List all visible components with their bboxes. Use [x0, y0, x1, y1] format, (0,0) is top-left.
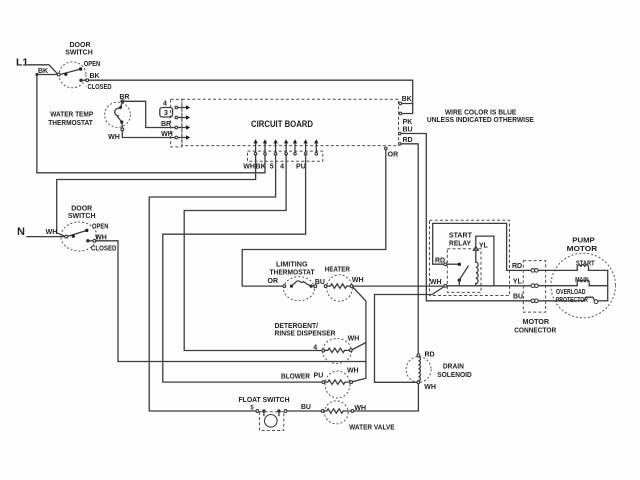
- door switch S2 contact OPEN: [85, 229, 88, 232]
- wire float switch to water valve: [287, 410, 321, 412]
- water temp thermostat terminal bottom: [121, 123, 123, 128]
- door switch S2 contact CLOSED: [86, 239, 89, 242]
- svg-text:FLOAT SWITCH: FLOAT SWITCH: [239, 395, 290, 404]
- overload protector element: [584, 297, 595, 301]
- node L1 junction: [35, 73, 38, 76]
- dispenser enclosure: [323, 339, 352, 364]
- start relay coil: [475, 250, 477, 262]
- svg-text:THERMOSTAT: THERMOSTAT: [270, 268, 315, 277]
- svg-text:4: 4: [163, 100, 167, 107]
- wire board pin PU to blower: [163, 155, 322, 382]
- wire connector YL to main winding: [538, 285, 577, 287]
- node S2 blade: [72, 235, 75, 238]
- wire thermostat WH to board pin WH row: [122, 131, 175, 138]
- door switch S1 enclosure: [59, 62, 86, 88]
- circuit board pin BU right side: [399, 132, 402, 135]
- wire BK drop from L1 to BK bus: [36, 75, 38, 173]
- dispenser element: [325, 348, 350, 352]
- svg-text:OVERLOAD: OVERLOAD: [556, 289, 586, 296]
- svg-text:WH: WH: [46, 229, 58, 236]
- svg-text:OR: OR: [388, 152, 399, 159]
- door switch S2 pivot: [65, 235, 68, 238]
- pump motor internal bus: [607, 270, 609, 300]
- svg-text:WH: WH: [430, 279, 442, 286]
- circuit board enclosure: [182, 99, 399, 145]
- svg-text:BLOWER: BLOWER: [281, 371, 310, 380]
- wire drain solenoid to water valve: [354, 384, 419, 411]
- svg-text:CLOSED: CLOSED: [91, 245, 117, 252]
- svg-text:WH: WH: [352, 277, 364, 284]
- svg-text:WH: WH: [347, 367, 359, 374]
- start relay switch blade: [460, 266, 468, 279]
- start relay enclosure: [430, 220, 510, 295]
- bottom connector enclosure: [248, 151, 323, 161]
- svg-text:MOTOR: MOTOR: [567, 244, 598, 253]
- bottom connector pins with arrows: [255, 144, 257, 153]
- water temp thermostat bimetal element: [121, 103, 122, 107]
- svg-text:YL: YL: [479, 243, 489, 250]
- node S1 blade: [64, 73, 67, 76]
- svg-text:4: 4: [280, 164, 284, 171]
- water temp thermostat enclosure: [105, 102, 131, 127]
- wire connector RD to start winding: [538, 269, 577, 271]
- svg-text:RD: RD: [512, 263, 522, 270]
- start relay switch enclosure: [447, 249, 481, 293]
- svg-text:WH: WH: [243, 164, 255, 171]
- dispenser terminal left: [322, 349, 325, 352]
- wire board pin 5 to float switch: [149, 155, 275, 411]
- pump motor start winding: [577, 265, 588, 271]
- svg-text:3: 3: [164, 110, 168, 117]
- svg-text:CIRCUIT BOARD: CIRCUIT BOARD: [251, 119, 313, 129]
- svg-text:5: 5: [270, 164, 274, 171]
- door switch S1 contact OPEN: [79, 67, 82, 70]
- svg-text:OPEN: OPEN: [92, 224, 109, 231]
- pump motor main winding: [577, 280, 589, 286]
- svg-text:BU: BU: [402, 127, 412, 134]
- wire jumper BK pin to PK pin: [402, 104, 413, 114]
- wire relay WH row to motor connector YL: [447, 285, 532, 287]
- water valve terminal right: [351, 410, 354, 413]
- svg-text:4: 4: [313, 344, 317, 351]
- wire S2 closed to WH bus: [96, 241, 366, 362]
- wire L1 feed: [28, 65, 58, 75]
- water valve terminal left: [321, 410, 324, 413]
- wire thermostat BR to board pin 3 row: [122, 101, 175, 127]
- circuit board pin BK right side: [399, 102, 402, 105]
- svg-text:UNLESS INDICATED OTHERWISE: UNLESS INDICATED OTHERWISE: [427, 115, 534, 124]
- door switch S2 blade: [68, 230, 87, 236]
- wire YL up and over to motor connector YL: [476, 236, 494, 286]
- circuit board pin RD right side: [399, 143, 402, 146]
- svg-text:WH: WH: [348, 335, 360, 342]
- circuit board pin PK right side: [399, 112, 402, 115]
- wire relay RD to switch contact: [447, 263, 460, 265]
- blower element: [325, 380, 350, 384]
- wire board pin BK to L1 bus: [37, 155, 265, 173]
- wire relay RD loop to motor connector RD: [433, 223, 532, 270]
- wire board pin WH to door switch S2: [57, 155, 256, 237]
- svg-text:THERMOSTAT: THERMOSTAT: [48, 118, 93, 127]
- left connector pins with arrows: [175, 106, 178, 109]
- wire heater WH to dispenser-blower column: [352, 287, 366, 382]
- svg-text:RD: RD: [402, 137, 412, 144]
- limiting thermostat enclosure: [284, 277, 315, 301]
- water valve element: [324, 409, 351, 413]
- blower terminal right: [350, 381, 353, 384]
- svg-text:BU: BU: [513, 293, 523, 300]
- float switch contacts: [262, 409, 265, 412]
- svg-text:DOOR: DOOR: [71, 206, 92, 213]
- wire relay switch to WH row: [458, 280, 460, 286]
- svg-text:BK: BK: [38, 68, 48, 75]
- svg-text:SWITCH: SWITCH: [65, 50, 93, 57]
- pump motor enclosure: [551, 253, 616, 318]
- blower enclosure: [325, 371, 350, 398]
- float switch float: [265, 415, 278, 428]
- svg-text:OR: OR: [268, 278, 279, 285]
- svg-text:RELAY: RELAY: [449, 238, 471, 247]
- svg-text:PU: PU: [296, 164, 306, 171]
- start relay switch contact upper: [458, 263, 461, 266]
- left connector enclosure: [171, 99, 182, 146]
- svg-text:WH: WH: [424, 384, 436, 391]
- water temp thermostat terminal top: [121, 100, 124, 103]
- svg-text:YL: YL: [513, 279, 523, 286]
- wire thermostat to heater: [311, 285, 314, 287]
- door switch S2 enclosure: [61, 222, 97, 251]
- wire heater to start relay WH: [353, 285, 443, 287]
- wire board pin BU to motor connector BU: [401, 134, 531, 301]
- wire connector BU to overload protector: [538, 300, 584, 302]
- limiting thermostat terminal right: [314, 285, 317, 288]
- wire board pin OR to limiting thermostat: [242, 150, 386, 286]
- svg-text:PK: PK: [403, 119, 413, 126]
- wire WH bus from relay to drain solenoid: [375, 287, 444, 382]
- svg-text:DOOR: DOOR: [70, 42, 91, 49]
- svg-text:SWITCH: SWITCH: [68, 213, 96, 220]
- drain solenoid terminal top: [417, 354, 420, 357]
- svg-text:WH: WH: [161, 131, 173, 138]
- door switch S1 contact CLOSED: [79, 79, 82, 82]
- door switch S1 blade: [60, 69, 80, 75]
- svg-text:BK: BK: [256, 164, 266, 171]
- blower terminal left: [322, 381, 325, 384]
- wire board pin 4 to dispenser: [184, 155, 322, 351]
- svg-text:BK: BK: [402, 96, 412, 103]
- drain solenoid coil: [418, 357, 420, 381]
- svg-text:CONNECTOR: CONNECTOR: [514, 325, 557, 334]
- svg-text:HEATER: HEATER: [325, 265, 350, 274]
- svg-text:WH: WH: [108, 134, 120, 141]
- svg-text:RINSE DISPENSER: RINSE DISPENSER: [275, 329, 337, 338]
- float switch terminal right: [284, 410, 287, 413]
- dispenser terminal right: [349, 349, 352, 352]
- wire N feed: [27, 236, 65, 238]
- svg-text:BK: BK: [89, 73, 99, 80]
- start relay coil terminal YL: [474, 246, 479, 250]
- drain solenoid terminal bottom: [417, 381, 420, 384]
- svg-text:N: N: [17, 226, 25, 238]
- svg-text:SOLENOID: SOLENOID: [437, 370, 472, 379]
- wire start winding to motor bus: [589, 269, 608, 271]
- start relay switch contact lower: [458, 279, 461, 282]
- motor connector contacts RD YL BU: [531, 269, 535, 273]
- circuit board pin OR bottom: [385, 147, 388, 150]
- wire board pin RD to drain solenoid: [401, 144, 418, 354]
- wire dispenser WH branch: [352, 343, 366, 350]
- svg-text:OPEN: OPEN: [84, 61, 101, 68]
- water valve enclosure: [325, 401, 349, 424]
- wire L1 junction stub: [37, 74, 57, 76]
- wire overload to motor bus: [598, 300, 608, 302]
- motor connector enclosure: [523, 261, 545, 313]
- svg-text:WATER VALVE: WATER VALVE: [349, 422, 395, 431]
- float switch terminal left: [256, 410, 259, 413]
- svg-text:BU: BU: [301, 404, 311, 411]
- jumper box pins 4-3: [160, 108, 173, 118]
- drain solenoid enclosure: [406, 357, 431, 383]
- svg-text:L1: L1: [16, 57, 28, 69]
- svg-text:CLOSED: CLOSED: [88, 84, 112, 91]
- start relay terminal WH: [444, 284, 447, 287]
- wire main winding to motor bus: [589, 285, 608, 287]
- heater element: [327, 284, 350, 288]
- svg-text:BR: BR: [161, 121, 171, 128]
- float switch enclosure: [259, 412, 283, 431]
- svg-text:START: START: [576, 260, 595, 267]
- wire BK from S1 to circuit board BK pin: [89, 80, 413, 103]
- limiting thermostat terminal left: [283, 285, 286, 288]
- door switch S1 pivot: [57, 73, 60, 76]
- svg-text:BU: BU: [315, 279, 325, 286]
- svg-text:PU: PU: [314, 373, 324, 380]
- limiting thermostat element: [290, 285, 293, 288]
- heater enclosure: [327, 275, 353, 301]
- start relay terminal RD: [444, 263, 447, 266]
- svg-text:RD: RD: [424, 351, 434, 358]
- heater terminal left: [324, 285, 327, 288]
- heater terminal right: [350, 285, 353, 288]
